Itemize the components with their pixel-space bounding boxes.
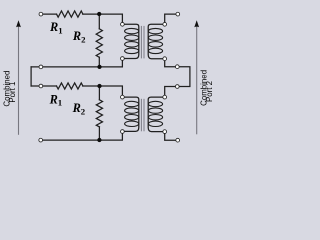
terminal: port2 upper (B) [175, 65, 179, 69]
transformer T1 core [141, 26, 144, 59]
T1 secondary loops [148, 28, 162, 33]
terminal: T2 secondary bottom [163, 130, 167, 134]
T2 secondary loops [148, 101, 162, 106]
label Combined Port 2 [199, 70, 214, 106]
wire: bottom row, corner up to T2 primary bottom [43, 134, 123, 141]
arrow port1 (left) stem [18, 27, 20, 135]
terminal: T2 primary bottom [121, 130, 125, 134]
wire: T1 secondary top to port2 top terminal [165, 14, 176, 22]
wire: lower-middle row leads, corner down to T2 primary top [31, 86, 122, 95]
resistor R2 (top) vertical zigzag [96, 29, 102, 57]
terminal: T2 secondary top [163, 95, 167, 99]
terminal: port1 top [39, 12, 43, 16]
terminal: T1 secondary top [163, 22, 167, 26]
resistor R1 (top) zigzag [57, 11, 83, 17]
wire: R2 top leads [98, 14, 100, 67]
node: bottom junction [97, 138, 101, 142]
T2 primary loops [125, 101, 139, 106]
terminal: port1 upper-middle [39, 65, 43, 69]
node: top R2 junction [97, 12, 101, 16]
terminal: T1 secondary bottom [163, 57, 167, 61]
transformer T2 core [141, 99, 144, 132]
transformer T2 primary winding entry/exit [124, 97, 139, 131]
resistor R2 (bottom) vertical zigzag [96, 100, 102, 127]
wire: upper-middle row, corner up to T1 primary bottom [31, 61, 122, 67]
terminal: T1 primary top [121, 22, 125, 26]
terminal: port2 top [176, 12, 180, 16]
terminal: port1 lower-middle [39, 84, 43, 88]
terminal: T1 primary bottom [121, 57, 125, 61]
resistor R1 (bottom) zigzag [57, 83, 83, 89]
wire: T2 secondary bottom to port2 bottom terminal [165, 134, 176, 141]
transformer T2 secondary winding entry/exit [148, 97, 163, 132]
terminal: port1 bottom [39, 138, 43, 142]
label Combined Port 1 [2, 71, 17, 107]
terminal: T2 primary top [121, 95, 125, 99]
node: upper-middle junction [97, 65, 101, 69]
node: lower-middle junction [97, 84, 101, 88]
terminal: port2 lower (C) [175, 85, 179, 89]
T1 primary loops [125, 28, 139, 33]
transformer T1 secondary winding entry/exit [148, 24, 163, 58]
wire: T1 secondary bottom through B, U-turn, through C, to T2 secondary top [165, 61, 190, 95]
terminal: port2 bottom [176, 138, 180, 142]
arrow port1 (left) head [16, 20, 21, 27]
arrow port2 (right) stem [196, 27, 198, 135]
arrow port2 (right) head [194, 20, 199, 27]
transformer T1 primary winding entry/exit [124, 24, 139, 58]
wire: R2 bottom leads [98, 86, 100, 140]
wire: port1 top terminal to R1, R1 to corner, down to T1 primary top [43, 14, 123, 22]
wire: left bracket joining middle rows [30, 67, 32, 86]
